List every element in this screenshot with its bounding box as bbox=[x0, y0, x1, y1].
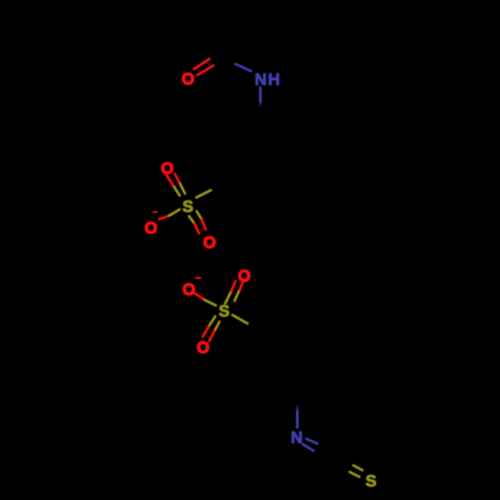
svg-text:H: H bbox=[268, 71, 280, 89]
bond C=O carbonyl (red half, line 2) bbox=[198, 66, 214, 76]
bond C-S2 olive half bbox=[233, 315, 248, 324]
bond C=S3 line2 olive half bbox=[350, 472, 360, 477]
svg-text:O: O bbox=[203, 234, 216, 252]
bond S1=O4 line2 olive half bbox=[197, 211, 202, 219]
svg-text:N: N bbox=[255, 71, 267, 89]
bond S2=O5 line1 red half bbox=[231, 281, 235, 291]
svg-text:S: S bbox=[182, 198, 193, 216]
bond S1-O3 olive half bbox=[169, 210, 179, 216]
bond S2=O5 line2 red half bbox=[240, 280, 244, 290]
bond S1=O2 line2 olive half bbox=[180, 184, 185, 194]
bond S1=O4 line1 red half bbox=[194, 223, 199, 233]
bond S1-O3 red half bbox=[159, 216, 169, 220]
bond C=S3 line1 olive half bbox=[353, 465, 362, 470]
bond C-N amide (blue half) bbox=[236, 64, 252, 71]
svg-text:O: O bbox=[161, 160, 174, 178]
svg-text:O: O bbox=[144, 219, 157, 237]
bond S2=O7 line1 olive half bbox=[209, 316, 216, 326]
bond S2=O5 line1 olive half bbox=[225, 292, 231, 304]
bond S1=O2 line2 red half bbox=[175, 174, 180, 184]
bond S1=O2 line1 red half bbox=[166, 175, 174, 187]
bond S2=O7 line1 red half bbox=[203, 327, 209, 337]
svg-text:O: O bbox=[182, 281, 195, 299]
bond S1=O4 line2 red half bbox=[202, 219, 206, 229]
bond N2=C line2 blue half bbox=[303, 444, 314, 451]
svg-text:O: O bbox=[182, 70, 195, 88]
svg-text:S: S bbox=[219, 303, 230, 321]
bond S1=O2 line1 olive half bbox=[174, 187, 179, 195]
svg-text:O: O bbox=[238, 267, 251, 285]
bond S2=O7 line2 olive half bbox=[215, 322, 220, 331]
bond S2-O6 red half bbox=[195, 293, 205, 300]
bond S2-O6 olive half bbox=[205, 300, 216, 305]
bond N2=C line1 blue half bbox=[306, 439, 317, 444]
svg-text:S: S bbox=[365, 472, 376, 490]
charge minus on O3 bbox=[153, 211, 158, 213]
bond N-C aryl (blue half) bbox=[259, 88, 262, 102]
bond C-S1 olive half bbox=[196, 190, 210, 197]
bond C=O carbonyl (red half, line 1) bbox=[194, 59, 210, 69]
bond S2=O7 line2 red half bbox=[209, 331, 214, 341]
charge minus on O6 bbox=[195, 277, 201, 279]
bond S2=O5 line2 olive half bbox=[235, 290, 240, 301]
bond C aryl-N2 (blue half) bbox=[296, 407, 299, 411]
svg-text:N: N bbox=[291, 429, 303, 447]
bond S1=O4 line1 olive half bbox=[189, 216, 194, 223]
svg-text:O: O bbox=[197, 339, 210, 357]
